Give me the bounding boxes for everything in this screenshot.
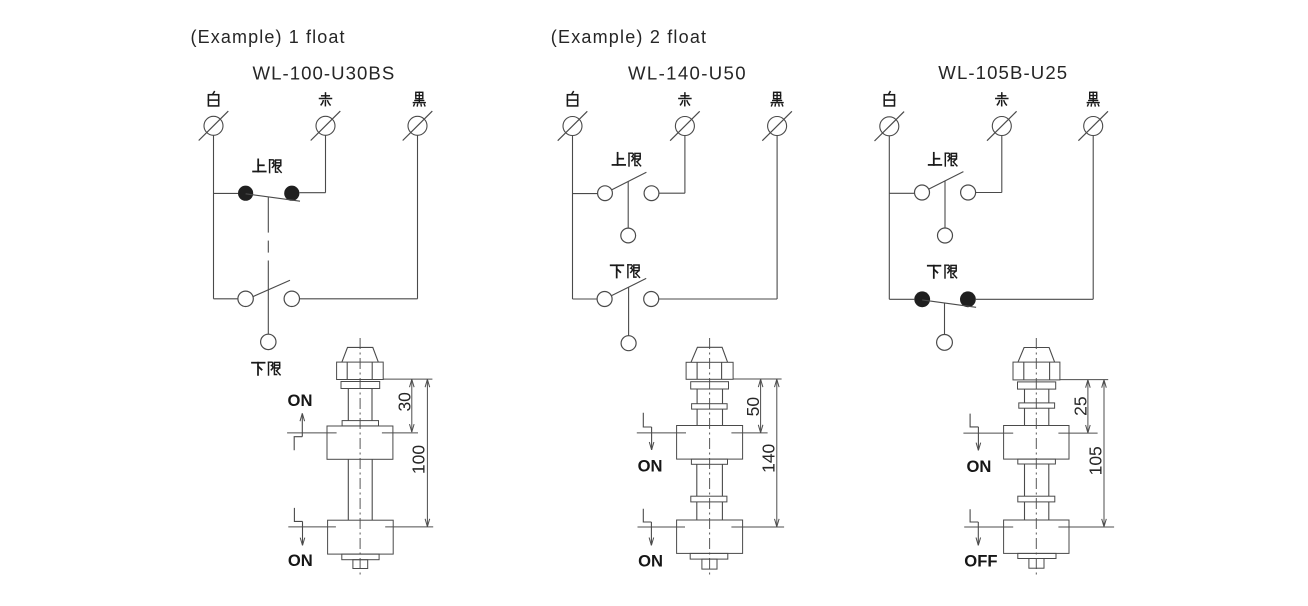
wire: branch to upper switch left contact (C2)	[573, 193, 598, 195]
dimension text 30 C1	[395, 392, 415, 412]
upper float body C1	[327, 426, 393, 459]
upper actuation indicator (arrow up) C1	[294, 413, 304, 450]
terminal 赤 (red) C2	[670, 111, 700, 140]
wire: lower switch right contact to black terminal (C2)	[659, 136, 777, 299]
terminal 白 (white) C1	[199, 111, 229, 140]
wire: upper switch right contact to red terminal (C2)	[659, 136, 685, 194]
terminal label 白 (white) C2	[567, 92, 577, 106]
svg-text:105: 105	[1086, 446, 1106, 475]
switch S2-upper (open) C2	[598, 172, 659, 243]
mechanical link (dashed) between switches C1	[267, 197, 269, 334]
switch S1-lower (open) C1	[238, 280, 300, 349]
wire: black terminal down to lower switch right contact (C1)	[300, 135, 418, 298]
label ON upper C3	[966, 457, 991, 476]
dimension text 105 C3	[1086, 446, 1106, 475]
svg-text:ON: ON	[966, 457, 991, 476]
lower float body C3	[1004, 520, 1069, 553]
wire: white terminal down left side (C2)	[572, 136, 574, 299]
upper actuation indicator (arrow down) C2	[643, 413, 654, 450]
label 下限 (lower limit) C3	[928, 265, 957, 278]
terminal 黒 (black) C3	[1078, 111, 1108, 140]
upper level line C3	[963, 432, 1097, 434]
switch S2-lower (open) C2	[597, 278, 659, 350]
terminal 黒 (black) C1	[403, 111, 433, 140]
dimension text 25 C3	[1071, 396, 1091, 415]
float stem upper 2 C3	[1025, 408, 1049, 425]
float stem upper 2 C2	[697, 409, 722, 425]
dimension line 105 C3	[1102, 380, 1107, 527]
lower level line C2	[638, 526, 785, 528]
label 下限 (lower limit) C1	[252, 362, 280, 375]
terminal label 赤 (red) C3	[996, 93, 1008, 106]
terminal label 黒 (black) C2	[771, 92, 783, 106]
dimension reference line top C1	[383, 378, 432, 380]
label ON lower C1	[288, 551, 313, 570]
wire: branch to upper switch left contact (C3)	[889, 192, 914, 194]
lower float body C1	[328, 520, 394, 554]
dimension line 25 C3	[1086, 380, 1091, 434]
switch S3-upper (open) C3	[915, 172, 976, 243]
upper level line C2	[637, 432, 768, 434]
label 上限 (upper limit) C2	[613, 153, 641, 166]
svg-text:ON: ON	[288, 551, 313, 570]
svg-text:ON: ON	[638, 456, 663, 475]
wire: branch to lower switch left contact (C1)	[214, 298, 238, 300]
lower actuation indicator (arrow down) C3	[970, 509, 981, 545]
title: model WL-100-U30BS	[253, 63, 396, 84]
wire: white terminal down left side (C3)	[888, 136, 890, 299]
lower level line C3	[964, 526, 1114, 528]
stem collar band upper C2	[692, 404, 728, 409]
switch S1-upper (closed) C1	[238, 186, 300, 202]
terminal 赤 (red) C1	[311, 111, 341, 140]
float stem upper C1	[348, 389, 372, 421]
dimension line 30 C1	[410, 379, 415, 432]
terminal label 赤 (red) C1	[320, 93, 332, 106]
wire: branch to lower switch left contact (C3)	[889, 298, 914, 300]
dimension text 140 C2	[759, 443, 779, 472]
label ON lower C2	[638, 552, 663, 571]
stem collar band lower C2	[691, 496, 727, 502]
dimension reference line top C2	[733, 378, 782, 380]
dimension line 100 C1	[425, 379, 430, 527]
dimension text 50 C2	[743, 397, 763, 417]
label 上限 (upper limit) C3	[929, 153, 957, 166]
float assembly cap nut C3	[1013, 348, 1060, 390]
float stem middle C3	[1025, 464, 1049, 496]
svg-text:25: 25	[1071, 396, 1091, 415]
float stem middle C2	[697, 464, 723, 496]
upper float body C2	[677, 426, 743, 460]
label OFF lower C3	[964, 551, 997, 570]
dimension reference line top C3	[1060, 379, 1108, 381]
dimension text 100 C1	[409, 445, 429, 474]
stem collar band upper C3	[1019, 403, 1055, 408]
wire: upper switch right contact to red terminal (C3)	[976, 136, 1002, 193]
bottom flange and end nut C3	[1018, 553, 1056, 568]
wire: branch to lower switch left contact (C2)	[573, 298, 598, 300]
float stem upper C2	[697, 389, 722, 404]
float stem middle 2 C3	[1025, 502, 1049, 520]
svg-text:ON: ON	[288, 391, 313, 410]
lower actuation indicator (arrow down) C2	[643, 509, 653, 546]
dimension line 140 C2	[775, 379, 780, 527]
title: model WL-105B-U25	[938, 62, 1068, 83]
float assembly centerline C2	[709, 338, 711, 577]
terminal 赤 (red) C3	[987, 111, 1017, 140]
terminal label 黒 C1	[413, 92, 425, 106]
wire: upper switch right contact to red terminal (C1)	[299, 135, 325, 192]
terminal label 黒 (black) C3	[1087, 92, 1099, 106]
float assembly centerline C1	[359, 338, 361, 576]
label 上限 (upper limit) C1	[253, 159, 281, 172]
dimension line 50 C2	[758, 379, 763, 433]
label ON upper C1	[288, 391, 313, 410]
caption: (Example) 2 float	[551, 27, 707, 47]
upper level line C1	[287, 432, 418, 434]
svg-text:100: 100	[409, 445, 429, 474]
svg-text:WL-140-U50: WL-140-U50	[628, 63, 747, 84]
upper float bottom flange C2	[691, 459, 727, 464]
terminal 黒 (black) C2	[762, 111, 792, 140]
lower level line C1	[288, 526, 433, 528]
bottom flange and end nut C2	[690, 553, 728, 569]
bottom flange and end nut C1	[342, 554, 379, 568]
title: model WL-140-U50	[628, 63, 747, 84]
svg-text:WL-105B-U25: WL-105B-U25	[938, 62, 1068, 83]
upper actuation indicator (arrow down) C3	[970, 414, 981, 451]
switch S3-lower (closed) C3	[914, 291, 976, 350]
svg-text:WL-100-U30BS: WL-100-U30BS	[253, 63, 396, 84]
lower actuation indicator (arrow down) C1	[294, 508, 304, 546]
float assembly cap nut C2	[686, 347, 733, 389]
float stem middle C1	[348, 459, 372, 520]
svg-text:(Example) 2 float: (Example) 2 float	[551, 27, 707, 47]
svg-text:ON: ON	[638, 552, 663, 571]
upper float body C3	[1004, 426, 1069, 460]
wire: white terminal down to lower switch (C1)	[213, 135, 215, 298]
float stem upper C3	[1025, 389, 1049, 403]
wire: branch to upper switch left contact (C1)	[214, 192, 239, 194]
float assembly cap nut C1	[337, 347, 384, 388]
svg-text:OFF: OFF	[964, 551, 997, 570]
wire: lower switch right contact to black terminal (C3)	[976, 136, 1093, 300]
terminal label 赤 (red) C2	[679, 93, 691, 106]
label 下限 (lower limit) C2	[611, 265, 640, 278]
float stem middle 2 C2	[697, 502, 723, 520]
lower float body C2	[677, 520, 743, 553]
label ON upper C2	[638, 456, 663, 475]
terminal 白 (white) C2	[558, 111, 588, 140]
svg-text:30: 30	[395, 392, 415, 412]
caption: (Example) 1 float	[191, 27, 346, 47]
svg-text:(Example) 1 float: (Example) 1 float	[191, 27, 346, 47]
svg-text:50: 50	[743, 397, 763, 417]
upper float bottom flange C3	[1018, 459, 1056, 464]
stem collar band lower C3	[1018, 496, 1055, 502]
terminal label 白 (white) C3	[884, 92, 894, 106]
terminal 白 (white) C3	[875, 112, 905, 141]
float assembly centerline C3	[1035, 338, 1037, 577]
svg-text:140: 140	[759, 443, 779, 472]
terminal label 白 (white) C1	[208, 92, 218, 106]
stem flange C1	[342, 421, 378, 426]
